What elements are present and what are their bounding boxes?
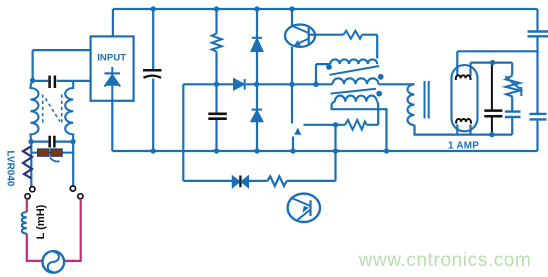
fusible resistor F1 body <box>38 149 63 156</box>
resistor R2 <box>343 31 362 39</box>
wire filter second row <box>33 80 91 82</box>
capacitor C2 bottom lead <box>215 120 217 152</box>
capacitor C6 <box>528 32 548 37</box>
capacitor C2 plates (black) <box>208 114 227 119</box>
wire mid rail <box>183 83 332 85</box>
input box <box>91 36 134 100</box>
AC source G1 <box>43 251 65 273</box>
wire W3 left lead <box>332 102 387 151</box>
wire bottom rail <box>112 150 537 152</box>
switch S1 lower lead <box>292 137 294 152</box>
T1 core slant 1 <box>330 66 380 75</box>
fuse row wire <box>31 152 73 154</box>
wire R3 row <box>304 124 379 126</box>
capacitor C7 <box>530 114 547 120</box>
svg-text:www.cntronics.com: www.cntronics.com <box>358 250 532 271</box>
zener diode in box <box>104 67 120 101</box>
wire x335 vertical <box>334 125 336 181</box>
T1 phase dot b <box>378 74 384 80</box>
T1 core slant 2 <box>331 89 377 94</box>
PTC resistor LVR040 zigzag <box>23 147 32 179</box>
wire R2 to W1 <box>376 35 378 59</box>
choke L1 right winding <box>65 81 73 142</box>
lamp filament top <box>456 75 471 80</box>
diode D1 branch leads <box>256 9 258 151</box>
resistor R3 <box>345 120 367 130</box>
resistor R2 base lead <box>309 34 378 36</box>
transistor Q1 emitter lead <box>291 47 293 85</box>
svg-text:1 AMP: 1 AMP <box>448 141 479 152</box>
fuse hook <box>50 157 60 161</box>
wire filter top <box>33 49 91 51</box>
wire lamp bottom leads <box>457 125 470 135</box>
wire W2 to T2 <box>379 83 415 85</box>
switch contacts <box>25 186 83 199</box>
choke L1 left winding <box>31 81 39 142</box>
diode D1 <box>252 38 263 51</box>
capacitor C1 top lead <box>152 9 154 69</box>
transformer T1 winding W3 <box>335 96 377 102</box>
right edge vertical <box>536 9 538 151</box>
capacitor C8 plates <box>484 111 502 117</box>
capacitor C1 plates (black) <box>143 69 162 72</box>
T2 core bars <box>425 81 429 119</box>
wire W3 right lead <box>377 102 378 125</box>
wire lamp top rail <box>457 50 537 52</box>
wire input box top lead <box>112 9 114 36</box>
lamp tube <box>452 65 478 131</box>
resistor R1 <box>212 34 222 52</box>
wire C4 row <box>31 141 74 143</box>
capacitor C4 (black) <box>50 136 55 148</box>
resistor R4 <box>267 176 286 186</box>
lamp filament bottom <box>456 119 471 124</box>
lamp starter circle <box>288 194 320 222</box>
diac D4 left <box>233 176 240 187</box>
choke core dashes <box>43 95 62 125</box>
wire T2 bottom lead <box>415 125 513 135</box>
wire lower loop <box>183 180 335 182</box>
svg-text:L (mH): L (mH) <box>35 204 47 239</box>
svg-text:INPUT: INPUT <box>97 53 126 64</box>
wire lamp top-left lead <box>456 51 458 76</box>
switch S1 arrow <box>294 128 301 135</box>
transistor Q1 <box>285 25 315 47</box>
inductor L2 <box>22 212 27 234</box>
varistor RV1 leads <box>511 63 513 135</box>
wire lamp top-right lead <box>469 63 471 76</box>
capacitor C8 (black) leads <box>491 64 493 134</box>
wire lamp cap rail <box>471 61 513 63</box>
wire filter left vertical <box>31 50 33 81</box>
capacitor C1 bottom lead <box>152 79 154 152</box>
switch S1 upper lead <box>291 84 293 123</box>
wire top rail <box>113 8 538 10</box>
diac D4 right <box>241 176 248 187</box>
capacitor C3 (black) <box>50 76 55 89</box>
wire left drop to lower loop <box>182 84 184 181</box>
transformer T2 primary <box>408 84 415 125</box>
transistor Q1 collector lead <box>291 9 293 26</box>
wire left contact drop <box>30 142 32 187</box>
wire W1 left lead <box>316 64 330 84</box>
transformer T1 winding W2 <box>333 78 379 84</box>
transformer T1 winding W1 <box>330 59 377 64</box>
wire input box bottom lead <box>111 101 113 151</box>
capacitor C5 <box>505 112 521 117</box>
svg-text:LVR040: LVR040 <box>5 151 16 187</box>
varistor RV1 arrow <box>507 78 522 97</box>
varistor RV1 <box>506 76 521 97</box>
diac D4 bar <box>239 176 241 188</box>
diode D3 <box>234 79 245 90</box>
wire right contact drop <box>72 142 74 186</box>
resistor R1 branch leads <box>215 9 217 113</box>
T1 phase dot a <box>326 64 332 70</box>
mains wiring (magenta) <box>27 199 81 261</box>
T1 phase dot c <box>376 91 382 97</box>
diode D2 <box>252 110 263 122</box>
